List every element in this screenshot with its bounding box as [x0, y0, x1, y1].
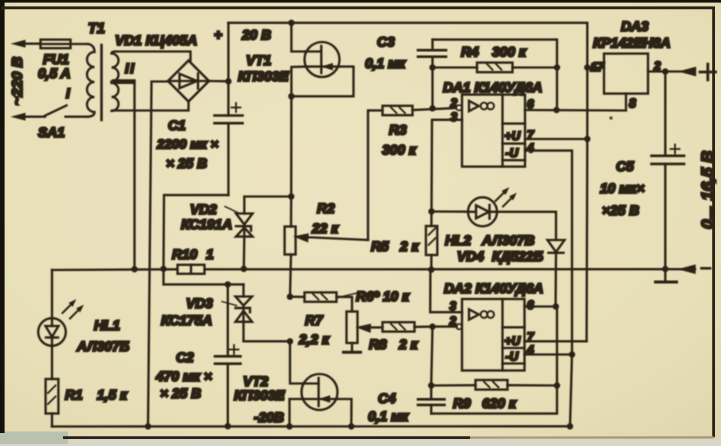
- svg-text:R6* 10 к: R6* 10 к: [356, 289, 410, 304]
- svg-text:HL2: HL2: [445, 233, 471, 248]
- capacitor C2: [155, 284, 241, 429]
- T1 secondary winding II upper: [112, 52, 119, 82]
- resistor R4: [461, 45, 527, 73]
- wire DA3 pin2 output: [648, 68, 695, 75]
- wire secondary top to bridge AC top: [115, 52, 191, 61]
- DA2 amplifier symbol: [469, 309, 479, 319]
- regulator DA3: [587, 19, 670, 94]
- svg-text:SA1: SA1: [38, 125, 65, 140]
- svg-text:АЛ307В: АЛ307В: [481, 233, 535, 248]
- svg-text:× 25 В: × 25 В: [160, 386, 201, 401]
- ground for R7: [344, 351, 361, 354]
- DA3 body: [604, 54, 648, 94]
- svg-text:C3: C3: [377, 35, 395, 50]
- wire VD2 bottom to common rail: [241, 237, 247, 272]
- DA1 inverting input circle: [456, 105, 461, 110]
- wire C3/R4 feedback loop: [429, 40, 560, 112]
- diode VD4: [457, 240, 565, 307]
- wire node to VD2 top: [244, 197, 291, 214]
- svg-text:R2: R2: [317, 201, 335, 216]
- wire DA1 pin6 output: [525, 94, 636, 114]
- wire DA1 pin7 to +20 net: [525, 136, 591, 142]
- svg-text:10 мк×: 10 мк×: [600, 181, 644, 196]
- svg-text:+U: +U: [505, 334, 521, 348]
- svg-text:2 к: 2 к: [398, 337, 419, 352]
- svg-text:R8: R8: [369, 337, 387, 352]
- svg-text:C4: C4: [378, 391, 396, 406]
- svg-text:3: 3: [451, 110, 458, 124]
- wire C1 minus to common rail: [160, 195, 228, 272]
- svg-text:FU1: FU1: [43, 52, 69, 67]
- wire secondary center tap: [113, 80, 135, 82]
- wire center tap down to common rail (node A): [133, 82, 135, 270]
- svg-text:I: I: [66, 86, 70, 101]
- T1 core: [100, 45, 103, 120]
- DA1 body: [462, 95, 525, 167]
- transformer T1: [66, 21, 136, 120]
- capacitor C1: [156, 81, 243, 195]
- output minus arrow and sign: [682, 266, 710, 273]
- transistor VT2: [234, 374, 338, 425]
- svg-text:20 В: 20 В: [241, 28, 271, 43]
- svg-text:6: 6: [527, 298, 534, 312]
- LED HL2: [432, 188, 535, 248]
- svg-text:0,1 мк: 0,1 мк: [368, 409, 409, 424]
- svg-text:17: 17: [591, 60, 606, 74]
- svg-text:T1: T1: [88, 21, 105, 37]
- wire DA2 pin7 stub: [525, 340, 587, 342]
- wire bridge minus to lower rail (node B): [148, 82, 168, 427]
- wire VT1 source bus down to R2: [288, 96, 294, 226]
- svg-text:КР142ЕН8А: КР142ЕН8А: [593, 36, 671, 51]
- svg-text:1,5 к: 1,5 к: [97, 388, 128, 403]
- svg-text:-U: -U: [506, 350, 519, 364]
- wire DA1 pin3 to R5 top: [428, 120, 462, 215]
- svg-text:300 к: 300 к: [492, 45, 527, 60]
- input terminal arrow bottom: [13, 113, 46, 120]
- svg-text:3: 3: [450, 299, 457, 313]
- svg-text:2,2 к: 2,2 к: [298, 332, 330, 347]
- svg-text:0,1 мк: 0,1 мк: [365, 56, 406, 71]
- T1 secondary winding II lower: [112, 83, 119, 111]
- svg-text:-20В: -20В: [254, 410, 284, 425]
- DA2 inverting input circle: [456, 324, 461, 329]
- svg-text:R4: R4: [461, 45, 479, 60]
- svg-text:C1: C1: [168, 118, 186, 133]
- wire secondary bottom to bridge AC bottom: [113, 102, 189, 111]
- wire R2 wiper up to R3: [368, 110, 383, 240]
- svg-text:22 к: 22 к: [311, 221, 339, 236]
- rectifier bridge VD1: [115, 33, 209, 102]
- input terminal arrow top: [13, 40, 41, 47]
- svg-text:+U: +U: [505, 129, 521, 143]
- svg-text:620 к: 620 к: [482, 396, 517, 411]
- svg-text:R10: R10: [172, 247, 198, 262]
- svg-text:C5: C5: [616, 159, 634, 174]
- wire DA2 pin3 to 0V rail: [430, 270, 462, 313]
- T1 primary winding I: [87, 44, 95, 117]
- wire +20V top rail: [228, 20, 587, 68]
- resistor R9: [431, 380, 560, 411]
- svg-text:DA1 К140УД6А: DA1 К140УД6А: [443, 80, 542, 95]
- wire +20 net down to DA2 pin7: [584, 64, 590, 341]
- DA1 amplifier symbol: [469, 101, 479, 111]
- wire rail2 0V branch to C2 and VD3: [164, 269, 244, 288]
- bottom page strip: [0, 439, 721, 446]
- zener VD3: [161, 284, 252, 328]
- wire bridge plus output node: [209, 78, 232, 84]
- svg-text:× 25 В: × 25 В: [166, 156, 207, 171]
- op-amp DA1: [443, 80, 542, 167]
- DA3 pin 17 input wire: [587, 66, 604, 68]
- black scan edge left: [0, 0, 5, 433]
- transistor VT1: [238, 42, 340, 84]
- ground symbol at C5: [656, 269, 677, 282]
- net ~220 V label: [9, 57, 26, 106]
- capacitor C3: [365, 35, 446, 72]
- wire VD3 bottom to VT2 bus: [244, 322, 294, 345]
- svg-text:8: 8: [629, 97, 636, 111]
- svg-text:C2: C2: [176, 350, 194, 365]
- svg-text:2200 мк ×: 2200 мк ×: [156, 137, 219, 152]
- svg-text:R5: R5: [371, 239, 389, 254]
- op-amp DA2: [444, 281, 543, 371]
- svg-text:КД522Б: КД522Б: [492, 249, 543, 264]
- wire VT2 source-gate to bottom rail left: [290, 399, 302, 426]
- svg-text:R1: R1: [65, 388, 83, 403]
- switch SA1: [38, 106, 88, 141]
- resistor R8 with wiper arrow to R7: [360, 322, 433, 352]
- capacitor C5: [600, 72, 684, 269]
- wire VT2 gate to bottom rail right: [337, 399, 351, 426]
- svg-text:II: II: [125, 61, 136, 76]
- svg-text:+: +: [214, 28, 222, 43]
- resistor R10: [172, 247, 214, 274]
- bottom-left gray patch: [0, 432, 68, 445]
- svg-text:×25 В: ×25 В: [602, 203, 639, 218]
- printing speck: [609, 116, 612, 119]
- svg-text:КП303Е: КП303Е: [234, 388, 285, 403]
- svg-text:КС191А: КС191А: [181, 217, 232, 232]
- zener VD2: [181, 202, 253, 237]
- svg-text:КП303Е: КП303Е: [238, 69, 289, 84]
- resistor R1: [46, 346, 128, 427]
- resistor R5: [371, 212, 437, 270]
- black scan edge top: [0, 0, 721, 3]
- wire HL2 to VD4: [497, 212, 556, 240]
- resistor R3: [382, 106, 457, 158]
- common rail 1 (0V): [52, 266, 683, 273]
- svg-text:4: 4: [526, 141, 534, 155]
- svg-text:300 к: 300 к: [382, 143, 417, 158]
- svg-text:VT2: VT2: [243, 374, 269, 389]
- potentiometer R2: [285, 201, 368, 300]
- wire VT1 gate-source loop: [288, 67, 353, 100]
- resistor R6: [290, 289, 410, 312]
- svg-text:HL1: HL1: [94, 318, 120, 333]
- svg-text:1: 1: [206, 247, 214, 262]
- LED HL1: [38, 270, 129, 354]
- fuse FU1: [38, 40, 88, 81]
- svg-text:VD1 КЦ405А: VD1 КЦ405А: [115, 33, 197, 48]
- bottom rail -20V: [52, 423, 573, 430]
- svg-text:0,5 A: 0,5 A: [38, 66, 70, 81]
- svg-text:~220 В: ~220 В: [9, 57, 26, 106]
- svg-text:VD4: VD4: [457, 249, 484, 264]
- capacitor C4: [368, 382, 557, 424]
- svg-text:КС175А: КС175А: [161, 313, 212, 328]
- svg-text:470 мк ×: 470 мк ×: [155, 369, 212, 384]
- svg-text:R3: R3: [389, 123, 407, 138]
- wire rail to VT1 drain: [291, 23, 305, 52]
- potentiometer R7: [298, 312, 358, 352]
- wire VT2 bus: [290, 341, 303, 383]
- svg-text:2 к: 2 к: [399, 239, 420, 254]
- svg-text:-U: -U: [506, 146, 519, 160]
- wire DA2 pin4 to -20 net: [525, 351, 576, 426]
- svg-text:R7: R7: [305, 313, 324, 328]
- svg-text:АЛ307Б: АЛ307Б: [76, 339, 130, 354]
- wire DA1 pin4 to -20 net: [525, 151, 572, 355]
- svg-text:VD3: VD3: [186, 296, 213, 311]
- svg-text:0... 16,5 В: 0... 16,5 В: [698, 151, 717, 229]
- wire DA2 pin6 output: [525, 303, 560, 385]
- DA2 body: [462, 299, 525, 371]
- wire DA2 pin2 node: [429, 323, 456, 385]
- svg-text:VT1: VT1: [246, 53, 271, 68]
- svg-text:R9: R9: [453, 396, 471, 411]
- svg-text:VD2: VD2: [190, 202, 217, 217]
- output plus sign: [700, 64, 716, 80]
- svg-text:DA3: DA3: [621, 19, 649, 34]
- svg-text:DA2 К140УД6А: DA2 К140УД6А: [444, 281, 543, 296]
- wire plus node up to +20V rail: [227, 23, 229, 82]
